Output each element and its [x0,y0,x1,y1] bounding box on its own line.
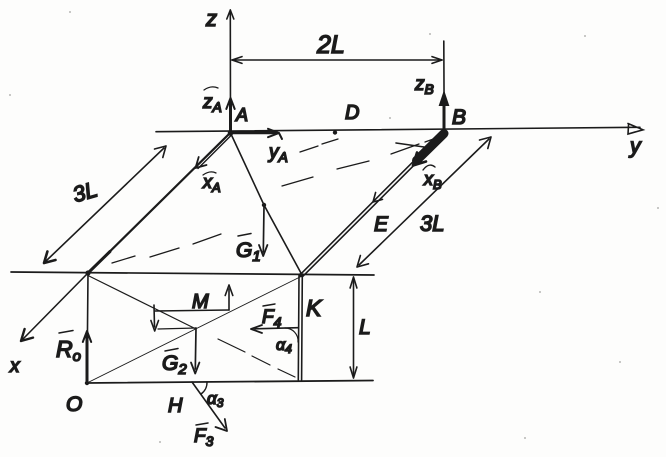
svg-text:B: B [452,106,466,129]
svg-text:y: y [628,135,642,158]
y axis [156,124,643,135]
svg-text:E: E [374,213,389,236]
svg-text:A: A [235,105,248,125]
force G1 [259,206,267,256]
left edge of lower frame [87,273,88,383]
svg-text:z: z [205,6,217,31]
reaction R0 [83,331,91,383]
svg-text:L: L [359,316,371,339]
svg-text:F3: F3 [194,426,214,449]
reaction arrow zB [439,92,448,134]
support line above B [443,41,445,133]
short stroke left of G2 [158,328,196,329]
label zA with hat [202,87,222,115]
small arrow mark at E on bar [373,193,383,203]
middle horizontal line [11,272,374,275]
svg-text:3L: 3L [420,211,444,236]
label F3 [194,423,214,449]
label xB with hat [423,165,442,192]
force F4 [251,325,298,333]
x axis [21,273,88,341]
svg-text:O: O [66,393,82,416]
angle alpha3 [201,382,224,410]
node K [299,273,303,277]
node corner [85,270,90,275]
svg-text:zA: zA [202,92,222,115]
bottom line [87,381,373,384]
force G2 [191,328,199,374]
svg-text:D: D [345,102,359,124]
svg-text:x: x [9,356,21,377]
front diagonal corner to bottom-right, part solid part dashed [89,276,295,377]
svg-text:F4: F4 [262,307,282,330]
dimension 3L right [357,137,491,267]
svg-text:yA: yA [267,142,288,165]
svg-text:K: K [306,295,323,321]
svg-text:α3: α3 [207,389,224,410]
short stroke near B [396,143,424,147]
label R0 [56,331,81,366]
svg-text:G1: G1 [236,239,261,265]
svg-text:xB: xB [423,169,442,192]
stray dashes upper [300,139,338,152]
z axis [227,10,234,133]
dimension 2L [232,57,442,64]
angle alpha4 [276,328,298,356]
thick end of bar near B [413,134,444,166]
node D [333,130,337,134]
svg-text:xA: xA [202,172,221,195]
front diagonal O to K [87,276,302,383]
node O [85,381,89,385]
svg-text:Ro: Ro [56,336,81,365]
reaction arrow xA [196,134,232,169]
node A [228,130,234,136]
diagonal A to K [231,134,302,274]
node center [262,203,266,207]
dimension L [350,277,357,378]
dashed diagonal corner to B [112,137,439,263]
bar B to K (double line) [301,132,445,276]
svg-text:zB: zB [414,74,434,97]
label xA with hat [202,172,221,195]
reaction arrow yA [231,129,282,139]
node B [441,130,446,135]
vertical bar below K (double line) [298,276,302,381]
svg-text:2L: 2L [316,31,345,59]
svg-text:α4: α4 [276,337,292,356]
plate edge corner to A [88,133,230,273]
label F4 [262,304,282,330]
svg-text:H: H [168,395,183,417]
couple M bracket [151,285,233,331]
svg-text:3L: 3L [70,176,100,207]
svg-text:M: M [192,291,209,313]
label G1 [236,234,261,266]
dimension 3L upper-left [44,146,166,263]
label G2 [162,349,187,379]
svg-text:G2: G2 [162,352,187,378]
force F3 [192,382,227,431]
reaction arrow zA [226,98,234,133]
